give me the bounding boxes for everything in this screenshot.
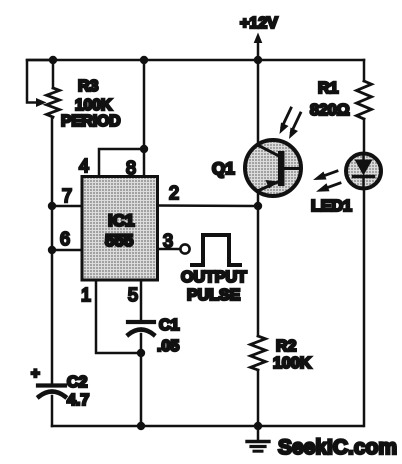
svg-text:R3: R3 xyxy=(78,78,99,95)
svg-text:5: 5 xyxy=(128,285,138,305)
pin 8 wire xyxy=(143,60,146,177)
wire C1 node to bottom rail xyxy=(140,353,143,426)
svg-text:R2: R2 xyxy=(276,338,297,355)
wire node to R2 xyxy=(257,206,260,336)
svg-text:.05: .05 xyxy=(157,338,179,355)
resistor R2 xyxy=(251,336,312,372)
node ground junction xyxy=(254,422,262,430)
node C1 bottom rail junction xyxy=(137,422,145,430)
pin 3 wire xyxy=(158,248,181,251)
svg-text:100K: 100K xyxy=(75,97,113,114)
node pin8 rail junction xyxy=(140,56,148,64)
node top-left junction xyxy=(49,56,57,64)
resistor R1 xyxy=(310,80,372,119)
light arrow out of LED (upper) xyxy=(313,171,337,180)
svg-text:8: 8 xyxy=(126,158,136,178)
svg-text:820Ω: 820Ω xyxy=(310,102,350,119)
wire left rail upper xyxy=(51,117,54,206)
node pin6 junction xyxy=(48,246,56,254)
power +12V xyxy=(240,15,278,60)
svg-text:LED1: LED1 xyxy=(311,198,352,215)
svg-text:PULSE: PULSE xyxy=(187,287,241,304)
light arrow out of LED (lower) xyxy=(316,183,340,192)
svg-text:1: 1 xyxy=(81,285,91,305)
node pin7 junction xyxy=(48,202,56,210)
svg-text:Q1: Q1 xyxy=(212,159,235,178)
svg-text:SeekIC.com: SeekIC.com xyxy=(278,436,397,459)
wire R1 to LED xyxy=(363,119,366,154)
resistor R3 (potentiometer) xyxy=(27,60,120,130)
LED LED1 xyxy=(311,154,381,216)
wire bottom rail xyxy=(52,425,363,428)
svg-text:PERIOD: PERIOD xyxy=(61,113,120,130)
wire Q1 emitter to node xyxy=(257,192,260,207)
light arrow into Q1 (left) xyxy=(280,108,292,134)
svg-text:+: + xyxy=(31,365,40,382)
svg-text:100K: 100K xyxy=(273,355,312,372)
svg-text:4.7: 4.7 xyxy=(67,392,89,409)
svg-text:2: 2 xyxy=(169,183,179,203)
wire C1 to node xyxy=(140,334,143,353)
wire left rail lower xyxy=(51,250,54,383)
node pin4-8 junction xyxy=(140,145,148,153)
wire left rail mid xyxy=(51,206,54,250)
capacitor C1 xyxy=(128,317,180,355)
svg-text:IC1: IC1 xyxy=(108,211,134,230)
svg-text:3: 3 xyxy=(163,231,173,251)
light arrow into Q1 (right) xyxy=(289,113,301,139)
wire right rail top xyxy=(363,60,366,81)
pin 5 wire xyxy=(140,280,143,320)
ground xyxy=(247,426,269,451)
pin 1 wire xyxy=(96,280,141,353)
svg-text:+12V: +12V xyxy=(240,15,278,32)
IC U1 555 timer xyxy=(82,177,158,281)
pin 6 wire xyxy=(52,249,82,252)
transistor Q1 xyxy=(212,140,301,196)
svg-text:555: 555 xyxy=(105,231,133,250)
wire right rail bottom xyxy=(363,189,366,427)
wire center branch collector xyxy=(257,60,260,145)
node pin2-emitter junction xyxy=(254,202,262,210)
svg-text:4: 4 xyxy=(79,156,89,176)
svg-text:OUTPUT: OUTPUT xyxy=(181,269,247,286)
node pin1-C1 junction xyxy=(137,349,145,357)
wire R2 to ground node xyxy=(257,370,260,426)
svg-text:C1: C1 xyxy=(159,317,180,334)
svg-text:C2: C2 xyxy=(67,374,88,391)
pin 3 terminal xyxy=(180,244,189,253)
svg-text:R1: R1 xyxy=(318,80,339,97)
capacitor C2 xyxy=(31,365,89,409)
pin 4 wire xyxy=(99,149,144,177)
svg-text:7: 7 xyxy=(62,186,72,206)
node +12V junction xyxy=(254,56,262,64)
wire top rail xyxy=(27,59,364,62)
wire left rail bottom xyxy=(51,396,54,426)
pin 7 wire xyxy=(52,205,82,208)
svg-text:6: 6 xyxy=(60,229,70,249)
pin 2 wire xyxy=(158,204,259,207)
output pulse symbol xyxy=(181,235,247,304)
